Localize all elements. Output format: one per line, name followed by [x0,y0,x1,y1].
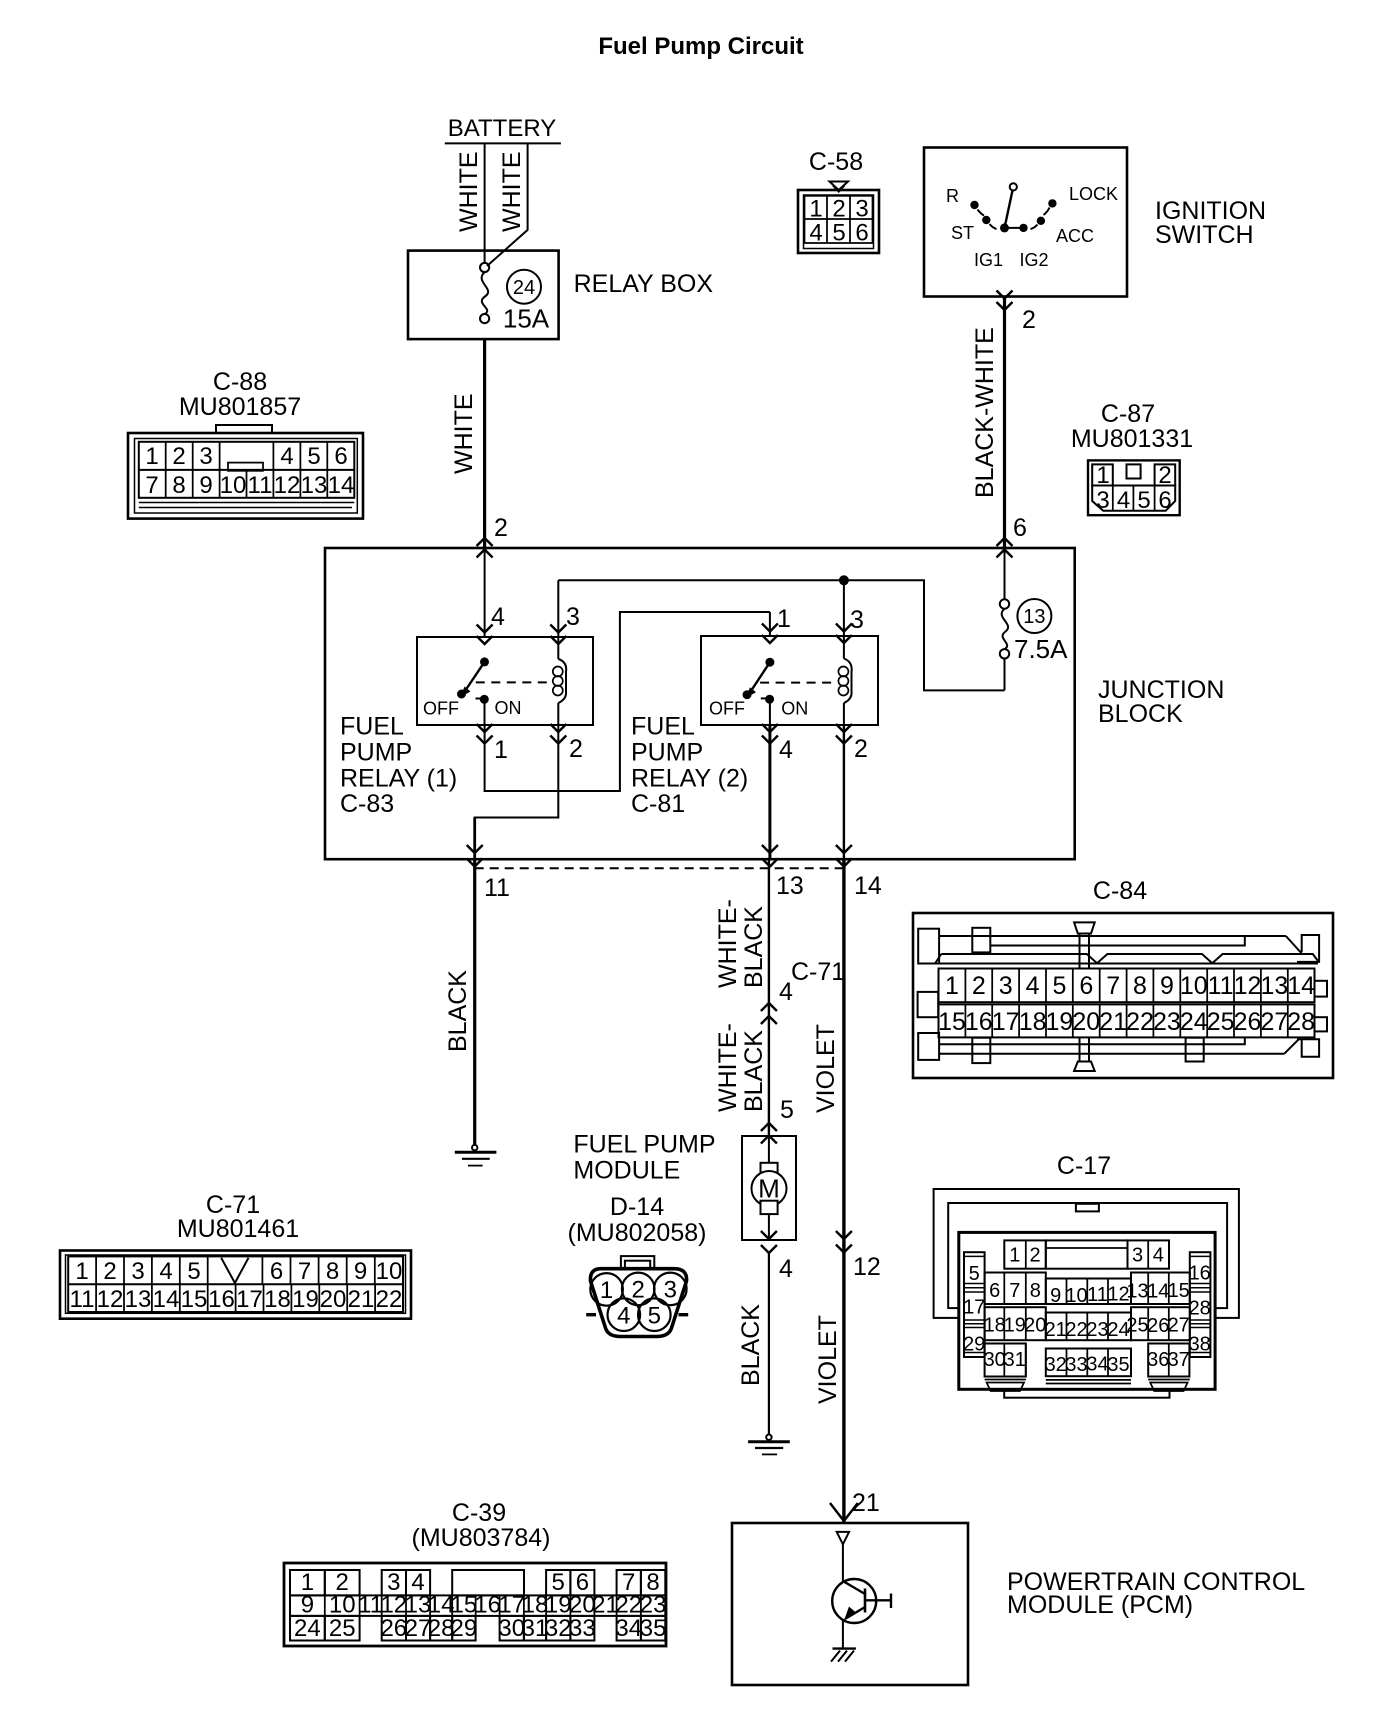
svg-text:D-14: D-14 [610,1193,664,1221]
svg-text:26: 26 [380,1615,407,1642]
wire BLACK fuel pump module pin 4 to ground [737,1253,793,1435]
svg-text:11: 11 [1208,972,1234,1000]
svg-text:4: 4 [617,1303,630,1330]
svg-text:36: 36 [1147,1349,1169,1371]
svg-text:IG2: IG2 [1020,250,1049,270]
svg-text:5: 5 [307,443,320,470]
svg-text:26: 26 [1234,1008,1262,1036]
svg-text:9: 9 [1050,1285,1061,1307]
svg-text:9: 9 [354,1258,367,1285]
svg-text:BLACK: BLACK [737,1304,765,1386]
svg-text:MU801857: MU801857 [179,393,301,421]
svg-text:30: 30 [984,1349,1006,1371]
svg-text:25: 25 [1126,1314,1148,1336]
svg-text:BLOCK: BLOCK [1098,700,1183,728]
wire battery feed 1 (WHITE) [455,143,485,263]
svg-text:17: 17 [236,1286,263,1313]
svg-text:27: 27 [1168,1314,1190,1336]
svg-text:15A: 15A [503,304,550,334]
svg-text:3: 3 [855,196,868,223]
node output 11 arrows and label [467,845,510,902]
top middle blank cell [1046,1240,1128,1268]
wire BLACK from junction 11 to ground [444,859,475,1145]
svg-text:BLACK: BLACK [740,1030,768,1112]
row D cells 32-35 [1046,1349,1131,1377]
relay fuel pump relay 1 (C-83) [340,637,593,818]
svg-text:OFF: OFF [709,698,745,718]
svg-text:12: 12 [97,1286,124,1313]
svg-text:R: R [946,186,959,206]
connector C-88 MU801857 [128,368,363,519]
svg-text:33: 33 [569,1615,596,1642]
svg-text:11: 11 [70,1286,95,1313]
connector C-84 [913,877,1333,1078]
svg-text:4: 4 [280,443,293,470]
svg-text:4: 4 [491,603,505,631]
connector C-39 pin numbers [294,1569,666,1642]
svg-text:16: 16 [965,1008,993,1036]
svg-text:WHITE: WHITE [498,151,526,232]
svg-text:(MU802058): (MU802058) [568,1219,707,1247]
svg-text:5: 5 [187,1258,200,1285]
svg-text:FUEL PUMP: FUEL PUMP [573,1131,715,1159]
wire junction connector boundary (dashed) [475,867,845,869]
svg-text:WHITE-: WHITE- [714,1023,742,1112]
node output 14 arrows and label [836,845,882,900]
svg-text:RELAY (2): RELAY (2) [631,764,748,792]
fuel pump module box [573,1131,796,1241]
svg-text:6: 6 [989,1280,1000,1302]
svg-text:20: 20 [320,1286,347,1313]
svg-text:18: 18 [1019,1008,1047,1036]
svg-text:4: 4 [1026,972,1040,1000]
svg-text:35: 35 [640,1615,667,1642]
svg-text:11: 11 [484,874,510,902]
svg-text:15: 15 [938,1008,966,1036]
svg-text:6: 6 [1158,487,1171,514]
wire VIOLET from junction 14 to PCM pin 21 [812,859,881,1523]
svg-text:32: 32 [545,1615,572,1642]
svg-text:27: 27 [1260,1008,1288,1036]
svg-text:22: 22 [1065,1319,1087,1341]
svg-text:M: M [758,1174,780,1204]
svg-text:2: 2 [172,443,185,470]
connector C-39 (MU803784) [284,1499,666,1646]
svg-text:4: 4 [779,978,793,1006]
svg-text:23: 23 [1086,1319,1108,1341]
svg-text:38: 38 [1189,1334,1211,1356]
svg-text:15: 15 [181,1286,208,1313]
wire junction feed to relay1 pin 4 [477,548,505,644]
connector C-87 MU801331 [1071,400,1193,515]
svg-text:29: 29 [451,1615,478,1642]
svg-text:12: 12 [853,1253,881,1281]
svg-text:ACC: ACC [1056,226,1094,246]
svg-text:PUMP: PUMP [340,738,412,766]
svg-text:13: 13 [1023,606,1045,628]
svg-text:5: 5 [648,1303,661,1330]
node in-line connector C-71 pins 4/5 [761,958,845,1124]
svg-text:C-83: C-83 [340,790,394,818]
svg-text:1: 1 [1009,1244,1020,1266]
svg-text:21: 21 [1099,1008,1127,1036]
svg-text:24: 24 [513,277,535,299]
svg-text:29: 29 [963,1334,985,1356]
svg-text:(MU803784): (MU803784) [412,1524,551,1552]
svg-text:13: 13 [1126,1281,1148,1303]
right strip 16/28/38 [1190,1252,1211,1357]
svg-text:PUMP: PUMP [631,738,703,766]
svg-text:5: 5 [969,1263,980,1285]
powertrain control module (PCM) box [732,1523,1305,1685]
svg-text:12: 12 [1234,972,1262,1000]
svg-text:3: 3 [1096,487,1109,514]
svg-text:WHITE-: WHITE- [714,899,742,988]
svg-text:16: 16 [208,1286,235,1313]
svg-text:6: 6 [1013,514,1027,542]
svg-text:12: 12 [274,472,301,499]
fuse 24 15A (fusible link in relay box) [480,263,550,334]
svg-text:BLACK-WHITE: BLACK-WHITE [971,327,999,498]
svg-text:8: 8 [1133,972,1147,1000]
connector C-84 pin grid numbers [938,969,1315,1038]
svg-text:19: 19 [1004,1314,1026,1336]
svg-text:22: 22 [1126,1008,1154,1036]
svg-text:WHITE: WHITE [450,393,478,474]
row C cells 25-27 [1131,1307,1190,1340]
connector C-17 internal cells [964,1240,1210,1391]
ground (junction block black wire) [455,1145,497,1166]
svg-text:1: 1 [1096,462,1109,489]
svg-text:C-81: C-81 [631,790,685,818]
svg-text:BLACK: BLACK [444,970,472,1052]
battery BATTERY [445,115,561,143]
svg-text:31: 31 [1004,1349,1026,1371]
row C cells 18-20 [985,1307,1046,1340]
svg-text:RELAY (1): RELAY (1) [340,764,457,792]
svg-text:4: 4 [1153,1244,1164,1266]
svg-text:8: 8 [172,472,185,499]
svg-text:1: 1 [945,972,959,1000]
svg-text:4: 4 [779,1255,793,1283]
svg-text:1: 1 [600,1277,613,1304]
svg-text:SWITCH: SWITCH [1155,221,1254,249]
row B cells 13-15 [1131,1273,1190,1305]
transistor Q (in PCM) [832,1544,891,1648]
svg-text:11: 11 [248,472,273,499]
wire battery feed 2 (WHITE) with diagonal into relay box [487,143,528,266]
svg-text:18: 18 [264,1286,291,1313]
svg-text:VIOLET: VIOLET [812,1024,840,1113]
svg-text:10: 10 [220,472,247,499]
svg-text:11: 11 [1087,1284,1108,1306]
node output 13 arrows and label [762,845,804,900]
svg-text:3: 3 [999,972,1013,1000]
wire relay1 pin2 to junction output 11 [475,724,583,859]
connector C-17 [934,1152,1239,1398]
svg-text:13: 13 [1260,972,1288,1000]
wire relay2 pin4 to junction output 13 [762,724,793,859]
svg-text:3: 3 [850,606,864,634]
svg-text:3: 3 [664,1277,677,1304]
top cells 3,4 [1128,1240,1170,1268]
svg-text:2: 2 [854,735,868,763]
svg-text:9: 9 [199,472,212,499]
connector C-71 MU801461 [60,1191,411,1319]
svg-text:6: 6 [334,443,347,470]
svg-text:6: 6 [855,220,868,247]
ground (fuel pump module) [748,1435,790,1455]
svg-text:ON: ON [495,698,522,718]
svg-text:2: 2 [1022,306,1036,334]
svg-text:18: 18 [984,1314,1006,1336]
svg-text:24: 24 [294,1615,321,1642]
motor M (fuel pump) [752,1136,787,1253]
svg-text:6: 6 [1079,972,1093,1000]
row D cells 36,37 [1148,1344,1189,1377]
connector C-17 pin numbers [963,1244,1211,1376]
svg-text:13: 13 [125,1286,152,1313]
svg-text:2: 2 [832,196,845,223]
node PCM pin 21 entry triangle [837,1532,849,1544]
svg-text:14: 14 [1147,1281,1169,1303]
svg-text:3: 3 [199,443,212,470]
wire BLACK-WHITE ignition switch pin 2 to junction block pin 6 [971,291,1036,558]
svg-text:17: 17 [963,1297,985,1319]
svg-text:7: 7 [298,1258,311,1285]
svg-text:2: 2 [569,735,583,763]
svg-text:C-17: C-17 [1057,1152,1111,1180]
svg-text:15: 15 [1168,1280,1190,1302]
ignition switch rotary contacts [946,183,1118,270]
svg-text:14: 14 [328,472,355,499]
svg-text:11: 11 [358,1592,383,1619]
svg-text:4: 4 [1117,487,1130,514]
left strip 5/17/29 [964,1252,985,1357]
svg-text:35: 35 [1107,1354,1129,1376]
svg-text:21: 21 [348,1286,375,1313]
svg-text:7: 7 [1106,972,1120,1000]
connector C-58 [798,148,879,253]
svg-text:24: 24 [1180,1008,1208,1036]
svg-text:19: 19 [1045,1008,1073,1036]
row B cells 9-12 [1046,1279,1131,1305]
svg-text:3: 3 [566,603,580,631]
svg-text:5: 5 [780,1096,794,1124]
relay fuel pump relay 2 (C-81) [631,636,878,818]
svg-text:16: 16 [1189,1262,1211,1284]
svg-text:7: 7 [145,472,158,499]
svg-text:1: 1 [494,736,508,764]
top cells 1,2 [1004,1240,1046,1268]
svg-text:2: 2 [632,1277,645,1304]
svg-text:RELAY BOX: RELAY BOX [574,270,714,298]
svg-text:MU801461: MU801461 [177,1215,299,1243]
row B cells 6-8 [985,1273,1046,1305]
svg-text:10: 10 [376,1258,403,1285]
svg-text:4: 4 [159,1258,172,1285]
wire WHITE-BLACK from C-71 to fuel pump module pin 5 [714,1023,777,1143]
svg-text:25: 25 [329,1615,356,1642]
wire relay1 pin1 to relay2 pin1 [477,612,770,791]
svg-text:BATTERY: BATTERY [448,115,556,142]
svg-text:MU801331: MU801331 [1071,425,1193,453]
svg-text:1: 1 [75,1258,88,1285]
svg-text:3: 3 [1132,1244,1143,1266]
svg-text:14: 14 [153,1286,180,1313]
svg-text:C-84: C-84 [1093,877,1147,905]
svg-text:5: 5 [1137,487,1150,514]
svg-text:26: 26 [1147,1315,1169,1337]
svg-text:WHITE: WHITE [455,151,483,232]
svg-text:Fuel Pump Circuit: Fuel Pump Circuit [598,33,803,60]
svg-text:14: 14 [854,872,882,900]
svg-text:19: 19 [292,1286,319,1313]
svg-text:10: 10 [1180,972,1208,1000]
svg-text:7.5A: 7.5A [1014,634,1068,664]
svg-text:28: 28 [1189,1298,1211,1320]
row D cells 30,31 [985,1344,1026,1377]
wire WHITE relay box to junction block pin 2 [450,339,508,557]
connector D-14 (round) [586,1256,688,1336]
node top bus wire (y=580) to relay coils and fuse [558,580,1004,690]
svg-text:17: 17 [992,1008,1020,1036]
svg-text:7: 7 [1009,1280,1020,1302]
svg-text:C-87: C-87 [1101,400,1155,428]
junction block [325,548,1224,859]
row C cells 21-24 [1046,1313,1131,1341]
svg-text:8: 8 [1030,1280,1041,1302]
feet [985,1379,1026,1381]
svg-text:2: 2 [972,972,986,1000]
svg-text:16: 16 [474,1592,501,1619]
svg-text:2: 2 [1029,1244,1040,1266]
svg-text:8: 8 [326,1258,339,1285]
svg-text:5: 5 [832,220,845,247]
wire relay2 pin1 feed [762,605,791,643]
svg-text:21: 21 [852,1489,880,1517]
svg-text:VIOLET: VIOLET [814,1315,842,1404]
fuse 13 7.5A in junction block [1000,548,1068,690]
wire WHITE-BLACK from junction 13 to C-71 crossing [714,859,769,1136]
svg-text:37: 37 [1168,1349,1190,1371]
ground (PCM internal, chassis) [831,1649,856,1662]
svg-text:2: 2 [1158,462,1171,489]
node junction dot at relay2 coil tap [839,575,849,585]
title Fuel Pump Circuit [598,33,803,60]
svg-text:21: 21 [1045,1319,1067,1341]
svg-text:4: 4 [809,220,822,247]
svg-text:20: 20 [1024,1314,1046,1336]
svg-text:C-39: C-39 [452,1499,506,1527]
svg-text:2: 2 [494,514,508,542]
svg-text:3: 3 [131,1258,144,1285]
svg-text:20: 20 [1072,1008,1100,1036]
svg-text:32: 32 [1045,1354,1067,1376]
svg-text:ST: ST [951,223,974,243]
svg-text:14: 14 [1287,972,1315,1000]
wire relay2 pin2 to junction output 14 [836,724,868,859]
svg-text:34: 34 [615,1615,642,1642]
svg-text:5: 5 [1052,972,1066,1000]
svg-text:FUEL: FUEL [631,713,695,741]
svg-text:1: 1 [809,196,822,223]
svg-text:C-71: C-71 [791,958,845,986]
svg-text:C-88: C-88 [213,368,267,396]
ignition switch box [924,148,1266,297]
wire relay1 coil feed pin 3 [550,580,580,644]
svg-text:IG1: IG1 [974,250,1003,270]
svg-text:34: 34 [1086,1354,1108,1376]
svg-text:FUEL: FUEL [340,713,404,741]
svg-text:22: 22 [376,1286,403,1313]
svg-text:1: 1 [145,443,158,470]
svg-text:2: 2 [103,1258,116,1285]
svg-text:25: 25 [1207,1008,1235,1036]
svg-text:LOCK: LOCK [1069,184,1118,204]
svg-text:MODULE (PCM): MODULE (PCM) [1007,1591,1193,1619]
svg-text:ON: ON [781,698,808,718]
svg-text:33: 33 [1065,1354,1087,1376]
svg-text:13: 13 [301,472,328,499]
svg-text:10: 10 [1065,1285,1087,1307]
svg-text:9: 9 [1160,972,1174,1000]
label D-14 (MU802058) [568,1193,707,1247]
svg-text:23: 23 [1153,1008,1181,1036]
svg-text:OFF: OFF [423,699,459,719]
svg-text:BLACK: BLACK [740,906,768,988]
svg-text:13: 13 [776,872,804,900]
svg-text:6: 6 [270,1258,283,1285]
wire relay2 coil feed pin 3 [836,580,864,643]
relay box [408,251,713,340]
svg-text:4: 4 [779,736,793,764]
svg-text:C-58: C-58 [809,148,863,176]
svg-text:MODULE: MODULE [573,1156,680,1184]
svg-text:28: 28 [1287,1008,1315,1036]
svg-text:1: 1 [777,605,791,633]
